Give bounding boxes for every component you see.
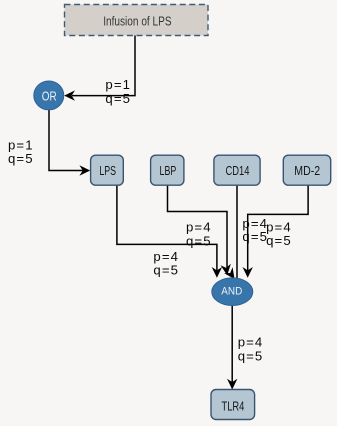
svg-text:q=5: q=5 — [8, 151, 34, 166]
svg-text:q=5: q=5 — [105, 91, 131, 106]
svg-text:LBP: LBP — [160, 163, 177, 178]
svg-text:CD14: CD14 — [226, 163, 250, 178]
svg-text:AND: AND — [221, 286, 242, 298]
svg-text:TLR4: TLR4 — [222, 399, 245, 414]
svg-text:MD-2: MD-2 — [294, 163, 320, 178]
svg-text:p=4: p=4 — [186, 219, 212, 234]
svg-text:q=5: q=5 — [186, 234, 212, 249]
svg-text:LPS: LPS — [99, 163, 116, 178]
svg-text:q=5: q=5 — [266, 233, 292, 248]
svg-text:Infusion of LPS: Infusion of LPS — [103, 14, 172, 29]
svg-text:q=5: q=5 — [153, 262, 179, 277]
svg-text:OR: OR — [42, 89, 57, 104]
svg-text:p=4: p=4 — [238, 334, 264, 349]
svg-text:q=5: q=5 — [238, 348, 264, 363]
svg-text:q=5: q=5 — [242, 229, 268, 244]
svg-text:p=1: p=1 — [105, 77, 131, 92]
